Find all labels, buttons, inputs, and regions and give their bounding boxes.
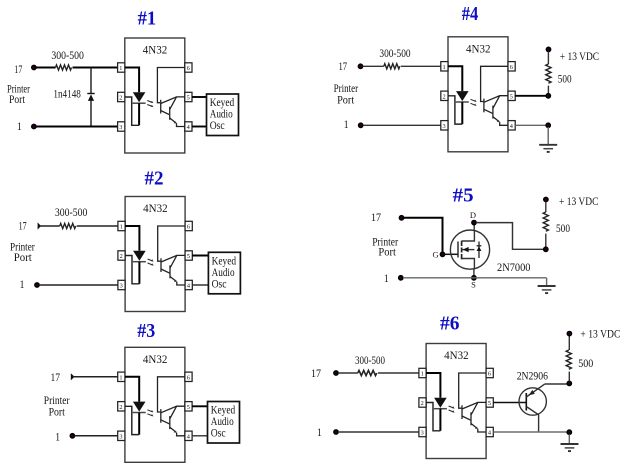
wire 1 to pin 3 [36, 126, 118, 128]
emitter with arrow [526, 384, 544, 397]
channel bar segments [461, 241, 463, 260]
terminal 1 [35, 283, 39, 287]
terminal 17 [334, 371, 338, 375]
node gate [440, 252, 444, 256]
svg-text:2N2906: 2N2906 [517, 369, 548, 383]
wire 1 to pin 3 [338, 431, 419, 433]
wire 17 to pin 1 [73, 376, 118, 378]
supply node +13VDC [546, 47, 550, 51]
terminal 1 [399, 276, 403, 280]
wire pin 5 to node [515, 95, 546, 97]
wire gate node to gate bar [445, 253, 458, 255]
base bar [525, 393, 527, 411]
drain stem and node [473, 223, 475, 230]
gate bar [457, 242, 459, 258]
terminal 17 [32, 65, 36, 69]
resistor R 300-500 [358, 370, 377, 375]
wire node to resistor [568, 372, 570, 382]
terminal 1 [32, 124, 36, 128]
wire supply to resistor [547, 52, 549, 65]
source stem and node [473, 269, 475, 278]
svg-text:Port: Port [378, 245, 396, 259]
wire 17 to resistor [40, 225, 60, 227]
body arrow [462, 249, 475, 251]
svg-text:500: 500 [556, 221, 570, 235]
keyed audio osc block [208, 402, 240, 444]
svg-text:+ 13 VDC: + 13 VDC [580, 327, 620, 341]
svg-text:Port: Port [49, 405, 66, 419]
terminal 17 tick [38, 222, 41, 229]
wire pin 4 to ground node [493, 431, 567, 433]
supply top node [567, 331, 571, 335]
svg-text:1n4148: 1n4148 [53, 87, 81, 101]
terminal 17 [399, 216, 403, 220]
emitter wire to supply node [545, 383, 568, 385]
ground node [567, 430, 571, 434]
svg-text:300-500: 300-500 [355, 353, 385, 367]
resistor 500 vertical [543, 212, 548, 231]
drain internal path [462, 230, 475, 241]
svg-text:#5: #5 [453, 185, 474, 207]
svg-text:Port: Port [9, 92, 26, 106]
node emitter [546, 123, 550, 127]
supply node top [544, 197, 548, 201]
svg-text:500: 500 [558, 72, 572, 86]
wire 17 to resistor [363, 65, 384, 67]
node drain-resistor junction [544, 247, 548, 251]
wire to ground symbol [546, 278, 548, 286]
wire 1 to pin 3 [363, 124, 441, 126]
MOSFET Q1 2N7000 circle [450, 230, 489, 269]
svg-text:1: 1 [20, 277, 25, 291]
svg-text:+ 13 VDC: + 13 VDC [560, 49, 599, 63]
svg-text:#1: #1 [138, 8, 157, 30]
transistor Q2 2N2906 circle [519, 388, 546, 415]
wire resistor to pin 1 [378, 372, 419, 374]
svg-text:17: 17 [339, 59, 348, 73]
collector [526, 407, 538, 433]
optocoupler U3 4N32 [118, 347, 192, 462]
svg-text:2N7000: 2N7000 [497, 260, 531, 274]
wire resistor to top [568, 336, 570, 350]
terminal 17 tick [71, 373, 75, 380]
wire pin 5 to keyed box [192, 255, 208, 257]
keyed audio osc block [208, 252, 240, 293]
wire resistor to collector node [547, 86, 549, 96]
svg-text:S: S [471, 280, 476, 290]
body diode [478, 242, 480, 259]
wire pin 4 to keyed box [192, 284, 208, 286]
terminal 1 [70, 434, 74, 438]
resistor R 300-500 [384, 64, 400, 69]
optocoupler U1 4N32 [118, 38, 192, 153]
svg-text:17: 17 [14, 62, 22, 76]
resistor R 300-500 [60, 223, 76, 228]
wire pin 4 to keyed box [192, 126, 207, 128]
ground [539, 145, 557, 152]
wire pin 4 to ground node [515, 124, 548, 126]
svg-text:17: 17 [371, 210, 381, 224]
svg-text:D: D [470, 210, 476, 220]
wire node to ground [568, 434, 570, 443]
svg-text:#3: #3 [137, 320, 155, 342]
svg-text:G: G [432, 250, 438, 260]
wire pin 5 to keyed box [192, 96, 207, 98]
svg-text:17: 17 [51, 370, 61, 384]
wire pin 5 to transistor base [493, 402, 526, 404]
svg-text:1: 1 [17, 119, 22, 133]
svg-text:#6: #6 [440, 313, 460, 335]
svg-text:#4: #4 [462, 3, 479, 25]
svg-text:300-500: 300-500 [55, 205, 88, 219]
wire 17 to gate [404, 218, 443, 252]
svg-text:500: 500 [578, 356, 593, 370]
wire node to ground [547, 127, 549, 145]
wire resistor to pin 1 [401, 65, 441, 67]
wire 1 to ground [403, 277, 547, 279]
svg-text:#2: #2 [145, 168, 164, 190]
terminal 17 [358, 64, 362, 68]
svg-text:+ 13 VDC: + 13 VDC [559, 194, 598, 208]
ground [538, 286, 556, 293]
wire pin 4 to keyed box [192, 435, 207, 437]
terminal 1 [359, 123, 363, 127]
resistor 500 vertical [546, 64, 551, 83]
svg-text:1: 1 [384, 271, 389, 285]
terminal 1 [334, 430, 338, 434]
keyed audio osc block [207, 94, 239, 136]
wire 17 to resistor [338, 372, 358, 374]
svg-text:17: 17 [311, 366, 321, 380]
optocoupler U2 4N32 [118, 197, 192, 312]
wire resistor to drain node [545, 234, 547, 250]
svg-text:1: 1 [55, 429, 60, 443]
resistor R 300-500 [56, 65, 72, 70]
svg-text:1: 1 [317, 425, 322, 439]
svg-text:1: 1 [344, 117, 349, 131]
resistor 500 vertical [566, 350, 571, 369]
wire resistor to pin 1 [73, 67, 118, 69]
diode D1 1n4148 vertical [90, 68, 92, 127]
svg-text:300-500: 300-500 [379, 46, 410, 60]
wire pin 5 to keyed box [192, 405, 207, 407]
wire drain to supply node [476, 223, 543, 250]
supply node [567, 381, 571, 385]
wire 17 to resistor [36, 67, 56, 69]
wire supply to resistor [545, 202, 547, 213]
node collector [546, 94, 550, 98]
svg-text:300-500: 300-500 [51, 48, 84, 62]
svg-text:17: 17 [19, 219, 27, 233]
svg-text:Port: Port [14, 250, 33, 264]
svg-text:Port: Port [337, 93, 355, 107]
wire 1 to pin 3 [75, 435, 118, 437]
source internal path [462, 259, 475, 270]
optocoupler U4 4N32 [441, 37, 515, 152]
optocoupler U6 4N32 [419, 344, 493, 459]
wire 1 to pin 3 [39, 284, 118, 286]
ground [561, 444, 579, 451]
wire resistor to pin 1 [77, 225, 118, 227]
